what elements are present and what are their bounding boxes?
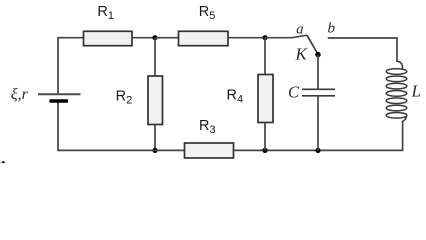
resistor R5 xyxy=(179,4,229,46)
resistor R1 xyxy=(84,4,133,46)
wire xyxy=(154,38,156,76)
battery ξ,r xyxy=(11,86,81,103)
svg-text:R4: R4 xyxy=(227,87,244,105)
resistor R4 xyxy=(227,75,274,123)
wire xyxy=(328,38,397,62)
wire xyxy=(132,37,155,39)
wire xyxy=(58,101,185,150)
wire xyxy=(264,123,266,151)
junction xyxy=(262,35,267,40)
svg-text:b: b xyxy=(328,21,336,37)
junction xyxy=(315,148,320,153)
wire xyxy=(317,55,319,90)
resistor R2 xyxy=(116,76,163,125)
svg-text:L: L xyxy=(411,82,421,101)
resistor R3 xyxy=(185,118,234,158)
capacitor C xyxy=(288,83,335,102)
inductor L xyxy=(386,61,421,121)
wire xyxy=(317,96,319,151)
wire xyxy=(154,125,156,151)
svg-text:R5: R5 xyxy=(199,4,216,22)
wire xyxy=(234,121,403,151)
wire xyxy=(155,37,179,39)
junction xyxy=(152,148,157,153)
svg-text:a: a xyxy=(296,21,303,37)
wire xyxy=(264,38,266,75)
svg-text:C: C xyxy=(288,83,300,102)
junction xyxy=(152,35,157,40)
svg-text:R3: R3 xyxy=(199,118,216,136)
wire xyxy=(228,37,265,39)
svg-text:K: K xyxy=(295,45,309,64)
stray ink (cropped text at image edge) xyxy=(0,161,5,163)
svg-text:R1: R1 xyxy=(97,4,114,22)
junction xyxy=(262,148,267,153)
switch K xyxy=(295,35,321,64)
svg-text:R2: R2 xyxy=(116,88,133,106)
svg-text:ξ,r: ξ,r xyxy=(11,86,29,103)
wire xyxy=(58,38,84,94)
wire xyxy=(265,35,307,38)
